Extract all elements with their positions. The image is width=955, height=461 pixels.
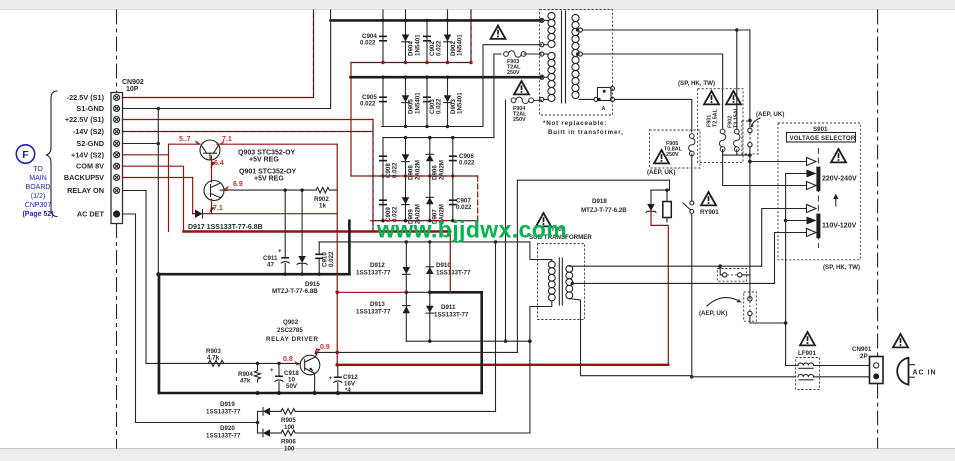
secondary tap circles xyxy=(540,18,544,101)
svg-text:1N5401: 1N5401 xyxy=(415,34,422,56)
row2 columns xyxy=(382,77,384,126)
svg-text:4.7k: 4.7k xyxy=(207,355,220,362)
svg-text:+5V REG: +5V REG xyxy=(249,157,279,164)
svg-text:MTZJ-T-77-6.2B: MTZJ-T-77-6.2B xyxy=(581,207,627,214)
primary tap circles xyxy=(578,28,582,56)
svg-text:2SC2785: 2SC2785 xyxy=(277,327,303,334)
up arrow xyxy=(835,196,837,207)
bottom gray bar xyxy=(0,449,955,461)
row4 columns xyxy=(382,176,384,221)
red drop to row3 rail xyxy=(350,63,352,177)
warning triangle near bridge xyxy=(491,26,506,39)
svg-text:T2.5AL: T2.5AL xyxy=(713,108,719,127)
capacitor C908 xyxy=(379,155,387,157)
svg-text:RELAY DRIVER: RELAY DRIVER xyxy=(266,336,319,343)
fuse F904 xyxy=(511,97,533,103)
svg-text:(AEP, UK): (AEP, UK) xyxy=(756,111,784,118)
svg-text:Q903 STC352-OY: Q903 STC352-OY xyxy=(238,150,296,157)
svg-text:1N5401: 1N5401 xyxy=(457,92,464,114)
capacitor C907 xyxy=(449,199,457,201)
svg-text:*Not replaceable:: *Not replaceable: xyxy=(543,120,607,127)
wire x373 down dashed red xyxy=(372,120,374,232)
wire p8 BACKUP5V red xyxy=(123,178,193,214)
svg-text:D911: D911 xyxy=(441,304,456,311)
svg-text:MTZJ-T-77-6.8B: MTZJ-T-77-6.8B xyxy=(272,288,318,295)
pin 2 xyxy=(114,106,120,112)
red mid rail xyxy=(351,175,478,177)
pin 6 xyxy=(114,152,120,158)
svg-text:1SS133T-77: 1SS133T-77 xyxy=(356,270,391,277)
svg-text:D918: D918 xyxy=(592,198,607,205)
svg-text:0.022: 0.022 xyxy=(436,98,443,114)
GND column xyxy=(157,109,159,394)
svg-text:1N5401: 1N5401 xyxy=(457,34,464,56)
top rail xyxy=(331,19,542,22)
row2 bottom rail xyxy=(382,126,483,128)
voltage selector S901 box xyxy=(778,123,860,260)
row2 rail thick xyxy=(351,76,542,79)
pin labels xyxy=(64,93,105,219)
svg-text:1SS133T-77: 1SS133T-77 xyxy=(436,270,471,277)
capacitor C910 xyxy=(318,242,320,254)
row3 top rail xyxy=(383,137,494,139)
svg-text:0.022: 0.022 xyxy=(360,40,376,47)
diode D906 xyxy=(426,154,434,161)
(AEP,UK) parallel jumper xyxy=(717,269,746,282)
diode D905 xyxy=(402,95,410,102)
lower rail xyxy=(406,340,530,342)
diode D902 xyxy=(444,35,452,42)
primary wire mid to F901 xyxy=(582,53,722,55)
(SP,HK,TW) fuse box xyxy=(698,89,743,163)
svg-text:+: + xyxy=(329,375,333,382)
svg-text:1SS133T-77: 1SS133T-77 xyxy=(206,409,241,416)
row4 bottom rail red/black xyxy=(371,220,478,222)
red right side of bridge box xyxy=(477,176,479,221)
svg-text:2P: 2P xyxy=(860,353,868,360)
svg-text:Q902: Q902 xyxy=(283,319,299,326)
svg-text:D919: D919 xyxy=(220,401,235,408)
svg-text:1N5401: 1N5401 xyxy=(415,92,422,114)
svg-text:0.9: 0.9 xyxy=(320,344,330,351)
diode D911 xyxy=(429,292,431,341)
svg-text:CN901: CN901 xyxy=(852,346,872,353)
right page border dash-dot xyxy=(877,10,879,356)
fuse F901 xyxy=(719,129,725,151)
svg-text:0.022: 0.022 xyxy=(436,40,443,56)
svg-text:(AEP, UK): (AEP, UK) xyxy=(647,169,675,176)
Q901 out line to R902 xyxy=(224,189,316,191)
thermal protector xyxy=(598,88,612,101)
svg-text:RELAY ON: RELAY ON xyxy=(67,186,104,195)
svg-text:MAIN: MAIN xyxy=(29,175,47,182)
diode D907 xyxy=(426,197,434,204)
primary wire top to AEP link column xyxy=(582,29,750,31)
diode D920 xyxy=(258,432,263,434)
transistor Q903 xyxy=(200,140,220,160)
red drop from COM rail xyxy=(449,232,451,293)
diode D908 xyxy=(402,154,410,161)
svg-text:+5V REG: +5V REG xyxy=(254,176,284,183)
resistor R906 xyxy=(270,432,281,434)
svg-text:(SP, HK, TW): (SP, HK, TW) xyxy=(678,80,715,87)
row3 columns xyxy=(382,138,384,176)
sub transformer T902 xyxy=(536,213,551,226)
svg-text:(AEP, UK): (AEP, UK) xyxy=(699,310,727,317)
svg-text:www.bjjdwx.com: www.bjjdwx.com xyxy=(376,217,567,243)
svg-text:S1-GND: S1-GND xyxy=(76,104,104,113)
svg-text:6.9: 6.9 xyxy=(233,181,243,188)
center tap feed x483 xyxy=(483,45,542,127)
pin 10 AC DET xyxy=(113,210,120,217)
diode D910 xyxy=(429,242,431,292)
relay coil feed xyxy=(651,180,670,190)
red output rail row1 xyxy=(351,62,470,64)
contact group 110V-120V xyxy=(807,205,817,213)
diode D903 xyxy=(444,95,452,102)
capacitor C918 xyxy=(277,362,280,365)
AC-DET feed node xyxy=(256,421,260,425)
svg-text:TO: TO xyxy=(33,166,43,173)
resistor R905 xyxy=(270,410,281,412)
svg-text:VOLTAGE SELECTOR: VOLTAGE SELECTOR xyxy=(790,135,856,142)
svg-text:D910: D910 xyxy=(436,262,451,269)
svg-text:BACKUP5V: BACKUP5V xyxy=(64,173,104,182)
ground bus xyxy=(158,273,349,276)
svg-text:S2-GND: S2-GND xyxy=(76,139,104,148)
svg-text:1SS133T-77: 1SS133T-77 xyxy=(206,433,241,440)
pin 5 xyxy=(114,141,120,147)
red +B vertical xyxy=(336,144,338,365)
capacitor C909 xyxy=(379,199,387,201)
svg-text:0.022: 0.022 xyxy=(459,160,475,167)
left page border dash-dot xyxy=(117,10,878,448)
svg-text:T3.15AL: T3.15AL xyxy=(734,106,740,128)
pin 8 xyxy=(114,175,120,181)
svg-text:10P: 10P xyxy=(126,86,139,93)
svg-text:S901: S901 xyxy=(813,126,828,133)
svg-text:LF901: LF901 xyxy=(798,350,816,357)
fuse F905 box xyxy=(650,130,701,168)
svg-text:2A02M: 2A02M xyxy=(439,160,446,180)
contact group 220V-240V xyxy=(807,158,817,166)
svg-text:+14V (S2): +14V (S2) xyxy=(71,150,105,159)
resistor R904 xyxy=(256,362,259,365)
T902 left leads xyxy=(530,242,552,261)
svg-text:-14V (S2): -14V (S2) xyxy=(73,127,105,136)
svg-text:2A02M: 2A02M xyxy=(415,160,422,180)
svg-text:Built in transformer,: Built in transformer, xyxy=(548,129,624,136)
relay coil RY901 xyxy=(665,188,668,191)
rail L1 xyxy=(319,241,530,243)
wire p6 +14V red xyxy=(123,154,169,156)
svg-text:250V: 250V xyxy=(513,117,526,123)
fuse F902 xyxy=(734,129,740,151)
svg-text:0.022: 0.022 xyxy=(360,101,376,108)
red Q901 emitter xyxy=(211,199,213,214)
F903 feed x493.9 xyxy=(494,54,501,138)
svg-text:RY901: RY901 xyxy=(700,209,719,216)
svg-text:+22.5V (S1): +22.5V (S1) xyxy=(65,115,105,124)
svg-text:-22.5V (S1): -22.5V (S1) xyxy=(67,93,105,102)
wire p7 COM 8V red xyxy=(123,166,184,231)
top gray bar xyxy=(0,0,955,9)
diode D909 xyxy=(402,197,410,204)
svg-text:AC IN: AC IN xyxy=(913,370,937,377)
diode D912 xyxy=(405,242,407,292)
svg-text:110V-120V: 110V-120V xyxy=(822,223,857,230)
capacitor C902 xyxy=(423,36,431,38)
thick ground bus bottom xyxy=(159,392,482,395)
red relay return path xyxy=(650,211,652,225)
thick red COM8V rail xyxy=(184,230,451,232)
svg-text:D906: D906 xyxy=(432,165,439,180)
svg-text:R906: R906 xyxy=(281,439,296,446)
svg-text:AC DET: AC DET xyxy=(77,210,105,219)
svg-text:6.4: 6.4 xyxy=(214,160,224,167)
svg-text:+: + xyxy=(270,367,274,374)
T901 secondary winding upper xyxy=(548,12,555,47)
svg-text:+: + xyxy=(278,248,282,255)
diode D919 xyxy=(258,410,263,412)
base line xyxy=(146,362,299,364)
T901 core xyxy=(561,11,563,103)
svg-text:(Page 52): (Page 52) xyxy=(22,211,53,218)
svg-text:Q901 STC352-OY: Q901 STC352-OY xyxy=(239,169,297,176)
svg-text:D915: D915 xyxy=(305,281,320,288)
svg-text:(1/2): (1/2) xyxy=(31,193,45,200)
pin 7 xyxy=(114,163,120,169)
capacitor C912 xyxy=(337,365,339,377)
brace xyxy=(46,91,57,217)
maroon riser x471 xyxy=(470,10,472,63)
primary bottom via thermal to F905 xyxy=(615,99,692,132)
svg-text:50V: 50V xyxy=(286,383,298,390)
diode D904 xyxy=(402,35,410,42)
svg-text:COM 8V: COM 8V xyxy=(76,162,104,171)
svg-text:1SS133T-77: 1SS133T-77 xyxy=(434,312,469,319)
F905 down to relay contact xyxy=(691,154,693,201)
F904 drop from fuse to relay feed xyxy=(505,100,507,341)
wire p2 S1-GND to top rail xyxy=(123,10,331,109)
svg-text:D912: D912 xyxy=(370,262,385,269)
line filter LF901 xyxy=(800,332,815,345)
zener D918 xyxy=(650,190,652,204)
svg-text:D905: D905 xyxy=(408,99,415,114)
svg-text:7.1: 7.1 xyxy=(213,205,223,212)
pin 4 xyxy=(114,129,120,135)
F901/F902 bottoms tie xyxy=(723,150,750,156)
off-page stubs row1 xyxy=(382,10,384,63)
capacitor C905 xyxy=(379,96,387,98)
wire p3 +22.5V red xyxy=(123,119,374,121)
AC plug xyxy=(897,358,908,385)
relay contact RY901 xyxy=(690,201,694,214)
svg-text:100: 100 xyxy=(284,446,295,453)
T901 secondary winding lower xyxy=(548,52,555,101)
svg-text:0.022: 0.022 xyxy=(456,204,472,211)
zener D915 xyxy=(301,190,303,256)
svg-text:CNP307: CNP307 xyxy=(25,202,52,209)
svg-text:BOARD: BOARD xyxy=(26,184,51,191)
T901 primary winding xyxy=(572,14,579,98)
capacitor C904 xyxy=(379,36,387,38)
svg-text:47: 47 xyxy=(267,262,274,269)
svg-text:D913: D913 xyxy=(370,301,385,308)
svg-text:D917 1SS133T-77-6.8B: D917 1SS133T-77-6.8B xyxy=(188,224,263,231)
circled F to main board xyxy=(16,145,34,163)
relay drive collector line xyxy=(317,351,517,353)
diode D917 xyxy=(195,210,203,218)
red link Q903-Q901 xyxy=(211,156,213,182)
svg-text:1SS133T-77: 1SS133T-77 xyxy=(356,309,391,316)
wire p5 S2-GND xyxy=(123,143,159,145)
svg-text:1k: 1k xyxy=(319,203,326,210)
svg-text:D904: D904 xyxy=(408,41,415,56)
svg-text:CN902: CN902 xyxy=(122,79,144,86)
capacitor C903 xyxy=(423,96,431,98)
svg-text:D908: D908 xyxy=(408,165,415,180)
fuse F903 xyxy=(504,51,526,57)
pin 9 xyxy=(114,188,120,194)
svg-text:5..7: 5..7 xyxy=(179,136,191,143)
connector CN902 xyxy=(111,93,123,224)
node S1-GND junction xyxy=(157,107,161,111)
mid rail red xyxy=(337,291,406,293)
(AEP,UK) series jumper xyxy=(744,292,757,321)
wire p10 AC DET xyxy=(123,214,258,423)
transformer T901 box xyxy=(540,10,613,116)
diode D913 xyxy=(405,292,407,341)
svg-text:250V: 250V xyxy=(507,70,520,76)
transistor Q901 xyxy=(204,181,224,201)
wire p4 -14V dashed maroon xyxy=(123,131,374,133)
svg-text:R905: R905 xyxy=(281,417,296,424)
wire p9 RELAY ON xyxy=(123,191,147,364)
svg-text:(SP, HK, TW): (SP, HK, TW) xyxy=(823,264,860,271)
T902 right leads xyxy=(569,265,761,268)
+5V line to Q903 red xyxy=(169,143,201,145)
svg-text:0.8: 0.8 xyxy=(283,356,293,363)
svg-text:47k: 47k xyxy=(240,378,251,385)
svg-text:0.022: 0.022 xyxy=(328,251,335,267)
capacitor C906 xyxy=(449,155,457,157)
resistor R903 xyxy=(208,360,224,366)
svg-text:F: F xyxy=(22,149,29,161)
selector dashed axis xyxy=(817,148,819,248)
resistor R902 xyxy=(316,187,336,193)
svg-text:250V: 250V xyxy=(666,152,679,158)
svg-text:D920: D920 xyxy=(220,425,235,432)
wire p1 -22.5V dashed maroon to top xyxy=(123,97,314,99)
svg-text:A: A xyxy=(602,106,606,112)
svg-text:220V-240V: 220V-240V xyxy=(822,176,857,183)
selector feed wires xyxy=(750,161,807,163)
pin 1 xyxy=(114,95,120,101)
pin 3 xyxy=(114,117,120,123)
